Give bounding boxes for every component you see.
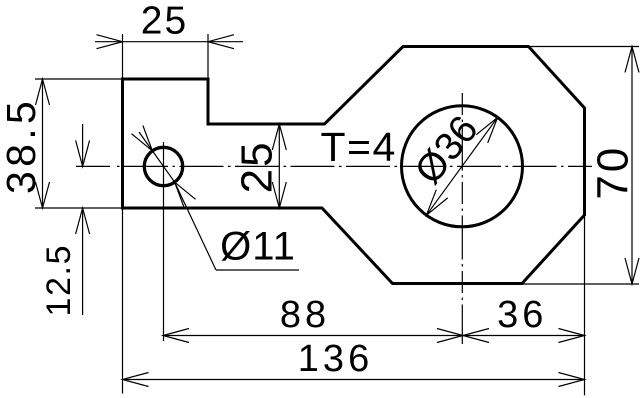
vertical centerline small hole (163, 142, 165, 341)
dim 12.5 upper arrow pointing down (76, 140, 90, 166)
dim 136 extension line right (584, 215, 586, 395)
dim diameter 11 arrow upper left (132, 126, 153, 151)
dim diameter 11 leader line (175, 182, 216, 270)
dim 38.5 extension line bottom (35, 207, 123, 209)
svg-text:25: 25 (232, 140, 281, 193)
part outline (123, 47, 585, 284)
dim 38.5 dimension line (42, 79, 44, 208)
dim 25 top extension line left (122, 34, 124, 79)
hole circle small Ø11 (144, 147, 182, 185)
dim 36 arrow left (463, 329, 489, 343)
dim 12.5 lower dimension line (82, 208, 84, 315)
dim 25 mid arrow bottom (272, 182, 286, 208)
svg-text:136: 136 (298, 338, 373, 380)
dim 136 arrow right (559, 373, 585, 387)
dim 25 top dimension line (95, 41, 243, 43)
svg-text:12.5: 12.5 (40, 244, 78, 317)
svg-text:Ø11: Ø11 (220, 225, 296, 269)
dim diameter 36 dimension line (426, 117, 497, 215)
dim 25 top arrow left (97, 35, 123, 49)
vertical centerline big hole (461, 93, 463, 344)
dim 70 extension line bottom (522, 283, 639, 285)
dim 38.5 arrow top (36, 79, 50, 105)
dim diameter 11 leader underline (216, 269, 299, 271)
hole circle big Ø36 (402, 106, 523, 227)
svg-text:36: 36 (497, 294, 547, 336)
svg-text:T=4: T=4 (321, 124, 397, 170)
dim 136 extension line left (122, 208, 124, 394)
dim 25 top extension line right (207, 34, 209, 79)
dim diameter 36 arrow upper right (476, 117, 497, 142)
dim 70 arrow top (625, 47, 639, 73)
dim 70 extension line top (529, 46, 640, 48)
svg-text:25: 25 (141, 0, 188, 43)
dim 70 arrow bottom (625, 258, 639, 284)
dim 38.5 extension line top (35, 78, 123, 80)
dim 12.5 lower arrow pointing up (76, 208, 90, 234)
dim 136 arrow left (123, 373, 149, 387)
dim diameter 11 arrow lower right (175, 182, 196, 207)
dim 88 dimension line (163, 335, 463, 337)
dim 25 top arrow right (208, 35, 234, 49)
dim 38.5 arrow bottom (36, 182, 50, 208)
dim 88 arrow left (163, 329, 189, 343)
dim 88 arrow right (437, 329, 463, 343)
dim 25 mid arrow top (272, 124, 286, 150)
dim 36 arrow right (559, 329, 585, 343)
svg-text:38.5: 38.5 (0, 97, 44, 194)
horizontal centerline (113, 165, 592, 167)
dim 136 dimension line (123, 379, 585, 381)
svg-text:70: 70 (589, 145, 638, 200)
dim 12.5 tick at centerline (76, 165, 110, 167)
dim 12.5 upper dimension line (82, 124, 84, 166)
dim 36 dimension line (463, 335, 585, 337)
dim diameter 11 line through circle (139, 132, 175, 182)
dim diameter 36 arrow lower left (426, 190, 447, 216)
svg-text:88: 88 (280, 294, 330, 336)
dim 70 dimension line (631, 47, 633, 285)
dim 25 mid dimension line (278, 124, 280, 208)
